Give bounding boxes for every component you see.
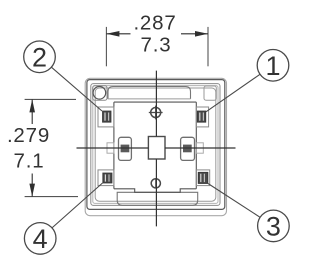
left contact box [119,137,132,160]
horizontal center line [77,147,236,149]
contact pad 4 (bottom-left) [103,173,112,183]
svg-text:4: 4 [33,224,48,254]
dimension .279/7.1 extension line bottom [25,196,78,198]
svg-text:.279: .279 [7,124,50,147]
right side notch [196,143,203,153]
left contact box center block [121,145,130,153]
dimension .279/7.1 extension line top [25,98,76,100]
top-left corner ear [98,107,114,127]
outer body outline [87,80,225,210]
balloon 2 leader line [51,67,102,111]
dimension .287/7.3 line right segment with arrow [181,31,208,37]
outer body shadow outline [85,78,226,215]
svg-text:7.1: 7.1 [14,150,45,173]
dimension .287/7.3 extension line right [207,27,209,66]
right contact box [181,137,195,160]
contact pad 3 (bottom-right) [198,172,208,183]
svg-text:3: 3 [266,212,281,242]
dimension .279/7.1 line top segment with arrow [29,99,35,124]
vertical center line [155,71,157,227]
lid inner outline [93,86,218,204]
balloon 4 leader line [52,183,103,228]
right contact box center block [183,145,192,153]
dimension .287/7.3 line left segment with arrow [106,31,130,37]
top screw symbol [149,106,163,120]
cavity outline [95,88,216,201]
center square [148,137,165,160]
contact pad 1 (top-right) [197,111,205,122]
balloon 2 [24,41,56,73]
balloon 1 leader line [206,74,260,112]
contact pad 2 (top-left) [103,111,111,122]
balloon 1 [257,50,289,82]
bottom screw symbol [151,179,160,188]
svg-text:1: 1 [265,51,280,81]
top-right corner block [204,86,216,100]
lid outer outline [91,84,220,206]
bottom-left corner ear [98,170,114,186]
svg-text:7.3: 7.3 [141,34,172,57]
orientation circle box [93,86,107,100]
balloon 4 [24,223,56,255]
dimension .279/7.1 line bottom segment with arrow [29,174,35,197]
bottom-right corner ear [196,170,209,186]
balloon 3 leader line [208,184,260,218]
left side notch [107,143,114,153]
bottom lid tab [117,192,198,205]
svg-text:2: 2 [32,43,47,73]
balloon 3 [258,210,290,242]
top-right corner ear [196,107,208,127]
top lid tab bottom edge [108,98,191,100]
top lid tab [108,87,191,99]
svg-text:.287: .287 [133,12,176,35]
dimension .287/7.3 extension line left [105,27,107,66]
orientation circle [93,87,106,100]
inner plate outline [114,102,196,192]
